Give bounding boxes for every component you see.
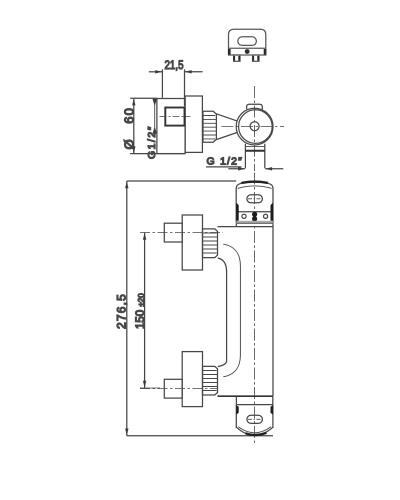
knurled nut (side view): [203, 111, 216, 142]
top wall bracket (front view): [236, 181, 273, 223]
svg-text:G 1/2″: G 1/2″: [207, 156, 244, 168]
dimension arrows under outlet: [228, 167, 283, 170]
dimension 150 ±20: [135, 233, 160, 389]
top handle body: [182, 215, 202, 270]
body column (front view): [218, 223, 274, 396]
top handle centerline: [140, 232, 223, 234]
temperature screw: [250, 122, 259, 131]
top handle knob: [164, 223, 182, 242]
front view vertical centerline: [254, 173, 256, 444]
dimension Ø 60: [122, 98, 186, 153]
circle horizontal centerline: [222, 126, 285, 128]
connecting pipe inner tangent curves: [223, 244, 240, 377]
body circle (side view): [236, 108, 273, 145]
connecting pipe outer silhouette: [218, 258, 227, 367]
outlet pipe (side view): [245, 144, 265, 168]
thread axis centerline: [160, 116, 191, 118]
top handle knurled nut: [203, 229, 218, 258]
mount tab on top of circle: [247, 104, 263, 109]
svg-text:21,5: 21,5: [165, 58, 184, 72]
G1/2 threaded inlet (side view): [165, 108, 184, 126]
svg-text:G1/2″: G1/2″: [146, 125, 158, 159]
escutcheon plate (side view): [185, 96, 202, 152]
dimension 276,5: [115, 181, 273, 436]
bottom handle knob: [164, 379, 182, 398]
bottom handle body: [182, 352, 202, 407]
phantom wall-bracket plan view (top centre): [229, 29, 266, 61]
label G1/2" (handle side) with leader arrows: [146, 99, 158, 159]
bottom handle centerline: [140, 388, 218, 390]
bottom handle knurled nut: [203, 366, 218, 395]
handle cylinder (side view): [157, 99, 185, 154]
dimension 21,5: [149, 58, 203, 106]
circle vertical centerline: [254, 86, 256, 171]
bottom wall bracket (front view): [236, 397, 273, 436]
label G 1/2" with underline: [206, 156, 243, 168]
cone taper to body: [216, 114, 236, 140]
